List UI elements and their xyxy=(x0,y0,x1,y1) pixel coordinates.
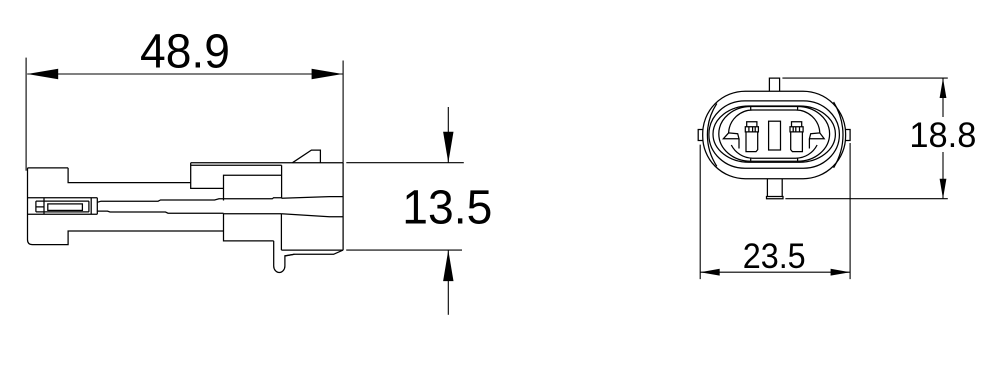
left side bump xyxy=(698,130,703,141)
terminal body rectangle xyxy=(36,198,97,215)
housing inner wall xyxy=(280,214,282,250)
dimension 13.5 extension line top xyxy=(346,162,464,164)
dimension 23.5 line xyxy=(700,271,850,273)
terminal inner sleeve xyxy=(48,204,83,211)
dimension 23.5 arrow right xyxy=(831,269,851,276)
dimension 48.9 line xyxy=(27,73,342,75)
dimension 23.5 arrow left xyxy=(700,269,720,276)
pin 2 terminal xyxy=(769,121,781,150)
pin 3 terminal xyxy=(790,122,803,132)
housing left face xyxy=(191,163,224,189)
top alignment tab xyxy=(769,78,779,91)
pin 1 terminal xyxy=(745,122,758,132)
dimension 13.5 lower leader line xyxy=(447,250,449,315)
dimension 23.5 extension line right xyxy=(849,143,851,279)
svg-text:13.5: 13.5 xyxy=(402,182,492,235)
latch ramp xyxy=(293,150,321,163)
dimension 48.9 arrow left xyxy=(27,69,58,79)
cavity inner wall with key notches xyxy=(729,107,820,162)
outer oval shell xyxy=(703,91,846,179)
right key wedge xyxy=(809,133,824,149)
wire bottom line xyxy=(97,211,343,217)
right end seal arc xyxy=(834,102,843,168)
housing bottom lip xyxy=(285,250,343,256)
dimension 18.8 line lower xyxy=(942,152,944,199)
dimension 48.9 extension line left xyxy=(25,58,27,171)
dimension 18.8 extension line top xyxy=(782,77,947,79)
left key wedge xyxy=(723,133,739,149)
lower cavity rectangle xyxy=(224,214,282,241)
housing mating face right edge xyxy=(342,163,344,250)
dimension 13.5 arrow bottom xyxy=(443,250,453,281)
dimension 13.5 extension line bottom xyxy=(346,249,462,251)
right side bump xyxy=(846,130,851,141)
dimension 18.8 extension line bottom xyxy=(785,198,947,200)
housing top outer line xyxy=(191,162,343,164)
dimension 18.8 arrow top xyxy=(940,78,947,98)
dimension 13.5 upper leader line xyxy=(447,107,449,163)
housing bottom edge xyxy=(281,249,343,251)
bottom alignment tab xyxy=(767,179,784,199)
svg-text:48.9: 48.9 xyxy=(140,26,230,79)
rear cap block outline xyxy=(28,168,224,245)
seal band top lines xyxy=(28,198,98,201)
dimension 13.5 arrow top xyxy=(443,132,453,163)
svg-text:18.8: 18.8 xyxy=(909,116,976,155)
seal band bottom lines xyxy=(28,212,98,214)
inner oval shell xyxy=(709,101,840,168)
dimension 48.9 arrow right xyxy=(312,69,343,79)
svg-text:23.5: 23.5 xyxy=(743,237,806,276)
dimension 48.9 extension line right xyxy=(342,61,344,163)
wire top line xyxy=(97,197,343,203)
housing top inner line xyxy=(191,164,282,166)
dimension 18.8 arrow bottom xyxy=(940,179,947,199)
dimension 23.5 extension line left xyxy=(699,145,701,280)
cavity outer wall inner face xyxy=(719,107,830,162)
left end seal arc xyxy=(707,104,716,167)
retainer hook xyxy=(274,241,295,273)
upper cavity rectangle xyxy=(224,165,282,200)
dimension 18.8 line upper xyxy=(942,78,944,117)
cavity outer wall xyxy=(713,106,835,162)
